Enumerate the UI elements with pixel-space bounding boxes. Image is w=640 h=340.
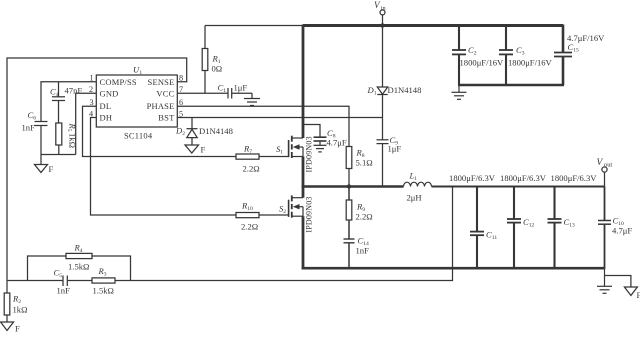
svg-text:R3: R3 bbox=[98, 266, 107, 278]
svg-text:R7: R7 bbox=[243, 144, 252, 156]
svg-text:R2: R2 bbox=[12, 294, 21, 306]
svg-text:BST: BST bbox=[158, 113, 175, 123]
ground F (COMP network) bbox=[35, 155, 54, 175]
Vin terminal bbox=[374, 0, 386, 26]
svg-text:F: F bbox=[637, 290, 640, 300]
transistor S1 IPD09N03 bbox=[276, 136, 313, 173]
wire Vin down to D1 bbox=[382, 26, 384, 88]
wire pin6 PHASE to R8 bbox=[177, 106, 349, 146]
svg-text:1800μF/6.3V: 1800μF/6.3V bbox=[449, 173, 496, 183]
svg-text:2.2Ω: 2.2Ω bbox=[241, 222, 258, 232]
capacitor C4 47nF bbox=[50, 82, 82, 123]
svg-text:L1: L1 bbox=[409, 171, 418, 183]
capacitor C9 1uF (bootstrap) bbox=[377, 135, 402, 187]
svg-text:1nF: 1nF bbox=[57, 286, 71, 296]
ground (earth) at input caps bbox=[452, 85, 467, 99]
svg-text:C15: C15 bbox=[568, 42, 580, 54]
capacitor C6 1nF bbox=[22, 110, 48, 155]
svg-text:4.7μF: 4.7μF bbox=[327, 138, 347, 148]
svg-text:C11: C11 bbox=[486, 230, 497, 242]
Vout terminal bbox=[597, 158, 613, 187]
svg-text:F: F bbox=[15, 324, 20, 334]
svg-text:SENSE: SENSE bbox=[148, 77, 175, 87]
svg-text:S1: S1 bbox=[276, 144, 283, 156]
svg-text:IPD09N03: IPD09N03 bbox=[304, 196, 313, 232]
svg-text:V: V bbox=[597, 158, 604, 168]
svg-text:1.5kΩ: 1.5kΩ bbox=[93, 286, 114, 296]
svg-text:D1N4148: D1N4148 bbox=[388, 85, 422, 95]
svg-text:R10: R10 bbox=[241, 201, 253, 213]
svg-text:C4: C4 bbox=[50, 87, 59, 99]
IC U1 bbox=[96, 65, 177, 141]
svg-text:VCC: VCC bbox=[156, 89, 174, 99]
svg-text:C12: C12 bbox=[523, 217, 535, 229]
svg-text:IPD09N03: IPD09N03 bbox=[304, 136, 313, 172]
wire divider line mask (cap gap) bbox=[7, 280, 63, 282]
capacitor C5 1nF (series) bbox=[54, 268, 71, 296]
wire drain bus (thick vertical) bbox=[302, 25, 305, 139]
svg-text:8: 8 bbox=[179, 74, 183, 83]
svg-text:GND: GND bbox=[100, 89, 119, 99]
wire L1 to Vout (output line) bbox=[432, 186, 605, 188]
wire R1 top to Vin bus bbox=[205, 25, 303, 27]
svg-text:D1N4148: D1N4148 bbox=[199, 126, 233, 136]
resistor R3 1.5k bbox=[92, 266, 115, 296]
inductor L1 2uH bbox=[404, 171, 432, 203]
svg-text:47nF: 47nF bbox=[65, 86, 83, 96]
svg-text:C2: C2 bbox=[468, 45, 477, 57]
capacitor C3 1800uF/16V bbox=[499, 25, 553, 86]
svg-text:0Ω: 0Ω bbox=[212, 64, 223, 74]
node phase junction dot bbox=[347, 184, 351, 188]
resistor R10 2.2ohm bbox=[236, 201, 289, 232]
resistor R9 2.2ohm bbox=[346, 187, 372, 239]
svg-text:1kΩ: 1kΩ bbox=[13, 305, 28, 315]
svg-text:F: F bbox=[201, 145, 206, 155]
svg-text:C13: C13 bbox=[564, 217, 576, 229]
capacitor C15 4.7uF/16V bbox=[554, 25, 605, 86]
ground F at R2 bbox=[1, 322, 20, 334]
ground F at D2 bbox=[185, 145, 206, 155]
capacitor C11 1800uF/6.3V bbox=[470, 186, 497, 269]
resistor R4 1.5k (upper branch) bbox=[28, 243, 131, 281]
svg-text:F: F bbox=[49, 164, 54, 174]
ground bus (thick) bbox=[302, 267, 605, 270]
wire feedback sense drop bbox=[115, 187, 453, 281]
svg-text:1nF: 1nF bbox=[22, 123, 36, 133]
capacitor C1 1uF bbox=[218, 83, 253, 99]
wire S1 source to phase (thick) bbox=[302, 157, 305, 188]
capacitor C8 4.7uF at S1 drain bbox=[303, 125, 347, 152]
wire pin1 COMP/SS to RC network bbox=[41, 82, 96, 122]
resistor R5 1k bbox=[56, 123, 78, 155]
svg-text:D1: D1 bbox=[367, 85, 377, 97]
svg-text:1μF: 1μF bbox=[388, 144, 402, 154]
svg-text:1800μF/16V: 1800μF/16V bbox=[460, 58, 505, 68]
capacitor C2 1800uF/16V bbox=[452, 25, 504, 86]
wire S2 source to ground bus (thick) bbox=[302, 216, 305, 269]
svg-text:DH: DH bbox=[100, 113, 113, 123]
svg-text:C3: C3 bbox=[516, 45, 525, 57]
resistor R2 1k bbox=[4, 281, 27, 323]
Vin bus (thick) bbox=[303, 24, 563, 27]
wire pin7 VCC bbox=[177, 92, 227, 94]
ground F at output bbox=[605, 276, 640, 301]
svg-text:R4: R4 bbox=[74, 243, 83, 255]
node Vin bus junction bbox=[380, 23, 384, 27]
capacitor C12 1800uF/6.3V bbox=[507, 186, 535, 269]
diode D1 D1N4148 (bootstrap) bbox=[367, 85, 422, 140]
wire SENSE feedback loop (pin8 to left rail down to divider) bbox=[7, 58, 187, 281]
svg-text:D2: D2 bbox=[175, 126, 185, 138]
resistor R8 5.1ohm bbox=[346, 147, 372, 187]
resistor R7 2.2ohm bbox=[236, 144, 289, 174]
svg-text:1800μF/6.3V: 1800μF/6.3V bbox=[551, 173, 598, 183]
wire gnd junction bbox=[41, 154, 76, 156]
svg-text:4.7μF: 4.7μF bbox=[612, 226, 632, 236]
svg-text:1800μF/16V: 1800μF/16V bbox=[508, 58, 553, 68]
wire pin4 DH to R10 bbox=[91, 118, 237, 216]
svg-text:5.1Ω: 5.1Ω bbox=[356, 158, 373, 168]
transistor S2 IPD09N03 bbox=[279, 195, 313, 232]
capacitor C10 4.7uF bbox=[598, 187, 632, 270]
wire input cap ground bus (thick) bbox=[458, 84, 564, 86]
resistor R1 0ohm bbox=[202, 26, 222, 94]
svg-text:1.5kΩ: 1.5kΩ bbox=[68, 262, 89, 272]
svg-text:U1: U1 bbox=[133, 65, 142, 77]
wire phase to S2 drain (thick) bbox=[302, 187, 305, 198]
wire pin5 BST to bootstrap node bbox=[177, 117, 382, 119]
svg-text:C1: C1 bbox=[218, 83, 227, 95]
svg-text:2.2Ω: 2.2Ω bbox=[356, 212, 373, 222]
svg-text:1800μF/6.3V: 1800μF/6.3V bbox=[500, 173, 547, 183]
svg-text:S2: S2 bbox=[279, 204, 286, 216]
svg-text:in: in bbox=[381, 5, 386, 12]
svg-text:1μF: 1μF bbox=[234, 83, 248, 93]
svg-text:1nF: 1nF bbox=[356, 246, 370, 256]
svg-text:2μH: 2μH bbox=[407, 193, 422, 203]
capacitor C13 1800uF/6.3V bbox=[548, 186, 576, 269]
svg-text:COMP/SS: COMP/SS bbox=[100, 77, 137, 87]
svg-text:DL: DL bbox=[100, 101, 112, 111]
svg-text:C6: C6 bbox=[28, 110, 37, 122]
wire pin3 DL to R7 bbox=[83, 106, 237, 156]
capacitor C14 1nF (snubber) bbox=[344, 236, 370, 270]
svg-text:out: out bbox=[604, 162, 612, 169]
svg-text:SC1104: SC1104 bbox=[124, 131, 153, 141]
ground (earth) at output bbox=[597, 269, 612, 293]
wire phase line to L1 (thick) bbox=[302, 185, 404, 187]
wire pin2 GND down bbox=[76, 93, 97, 154]
svg-text:2.2Ω: 2.2Ω bbox=[243, 164, 260, 174]
svg-text:C5: C5 bbox=[54, 268, 63, 280]
svg-text:PHASE: PHASE bbox=[147, 101, 175, 111]
ground (earth) at C1 bbox=[244, 93, 260, 105]
diode D2 D1N4148 (clamp to F gnd) bbox=[175, 118, 233, 146]
